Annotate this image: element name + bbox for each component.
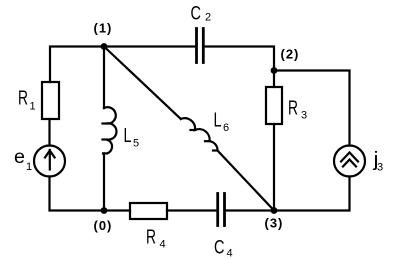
label j3 [372,149,383,174]
svg-text:L: L [124,125,132,147]
svg-text:(3): (3) [265,216,284,231]
resistor R1 [42,82,59,119]
node 0 junction dot [101,207,108,214]
svg-text:R: R [288,98,298,120]
svg-text:1: 1 [26,161,32,173]
svg-text:4: 4 [227,248,233,259]
node 1 junction dot [101,43,108,50]
svg-text:6: 6 [223,122,229,134]
svg-text:R: R [146,227,156,249]
label C2 [191,4,212,25]
svg-text:5: 5 [133,138,139,150]
svg-text:3: 3 [301,110,307,122]
wire C4 left plate to R4 right end [167,209,217,211]
wire from C2 right plate to corner and down to node 2 [205,47,275,71]
resistor R4 [130,203,167,219]
svg-text:L: L [214,110,222,132]
resistor R3 with connecting wires [273,71,275,88]
inductor L5 with wires from node 1 to node 0 [103,47,117,211]
current source j3 [334,146,365,177]
svg-text:2: 2 [205,12,211,24]
label e1 [14,147,32,173]
wire j3 bottom to bottom-right corner to node 3 [274,177,350,211]
wire diagonal lower from L6 to node 3 [218,151,275,211]
svg-text:(1): (1) [94,21,113,36]
label R3 [288,98,307,122]
svg-text:(0): (0) [94,218,113,233]
capacitor C4 [218,194,225,226]
label R1 [18,88,36,113]
voltage source e1 [34,146,65,177]
wire node 2 to right corner and down to j3 [274,71,350,146]
wire diagonal upper from node 1 to L6 [104,47,181,119]
node 3 junction dot [271,207,278,214]
wire R4 left to node 0 to bottom-left corner up to e1 [50,177,131,211]
svg-text:1: 1 [30,101,36,113]
svg-text:4: 4 [160,239,166,251]
label L5 [124,125,140,150]
wire e1 top to R1 bottom [48,119,50,146]
label L6 [214,110,230,135]
inductor L6 [181,118,218,150]
svg-text:R: R [18,88,28,110]
svg-text:(2): (2) [281,47,300,62]
svg-text:C: C [214,238,225,259]
svg-text:3: 3 [377,162,383,174]
label C4 [214,238,233,259]
label R4 [146,227,166,251]
svg-text:e: e [14,147,25,168]
node 2 junction dot [271,67,278,74]
wire top-left from corner to node 1 [50,47,104,83]
capacitor C2 [197,29,204,63]
wire node 3 to C4 right plate [226,209,274,211]
svg-text:C: C [191,4,202,25]
wire top from node 1 to C2 left plate [104,45,195,47]
